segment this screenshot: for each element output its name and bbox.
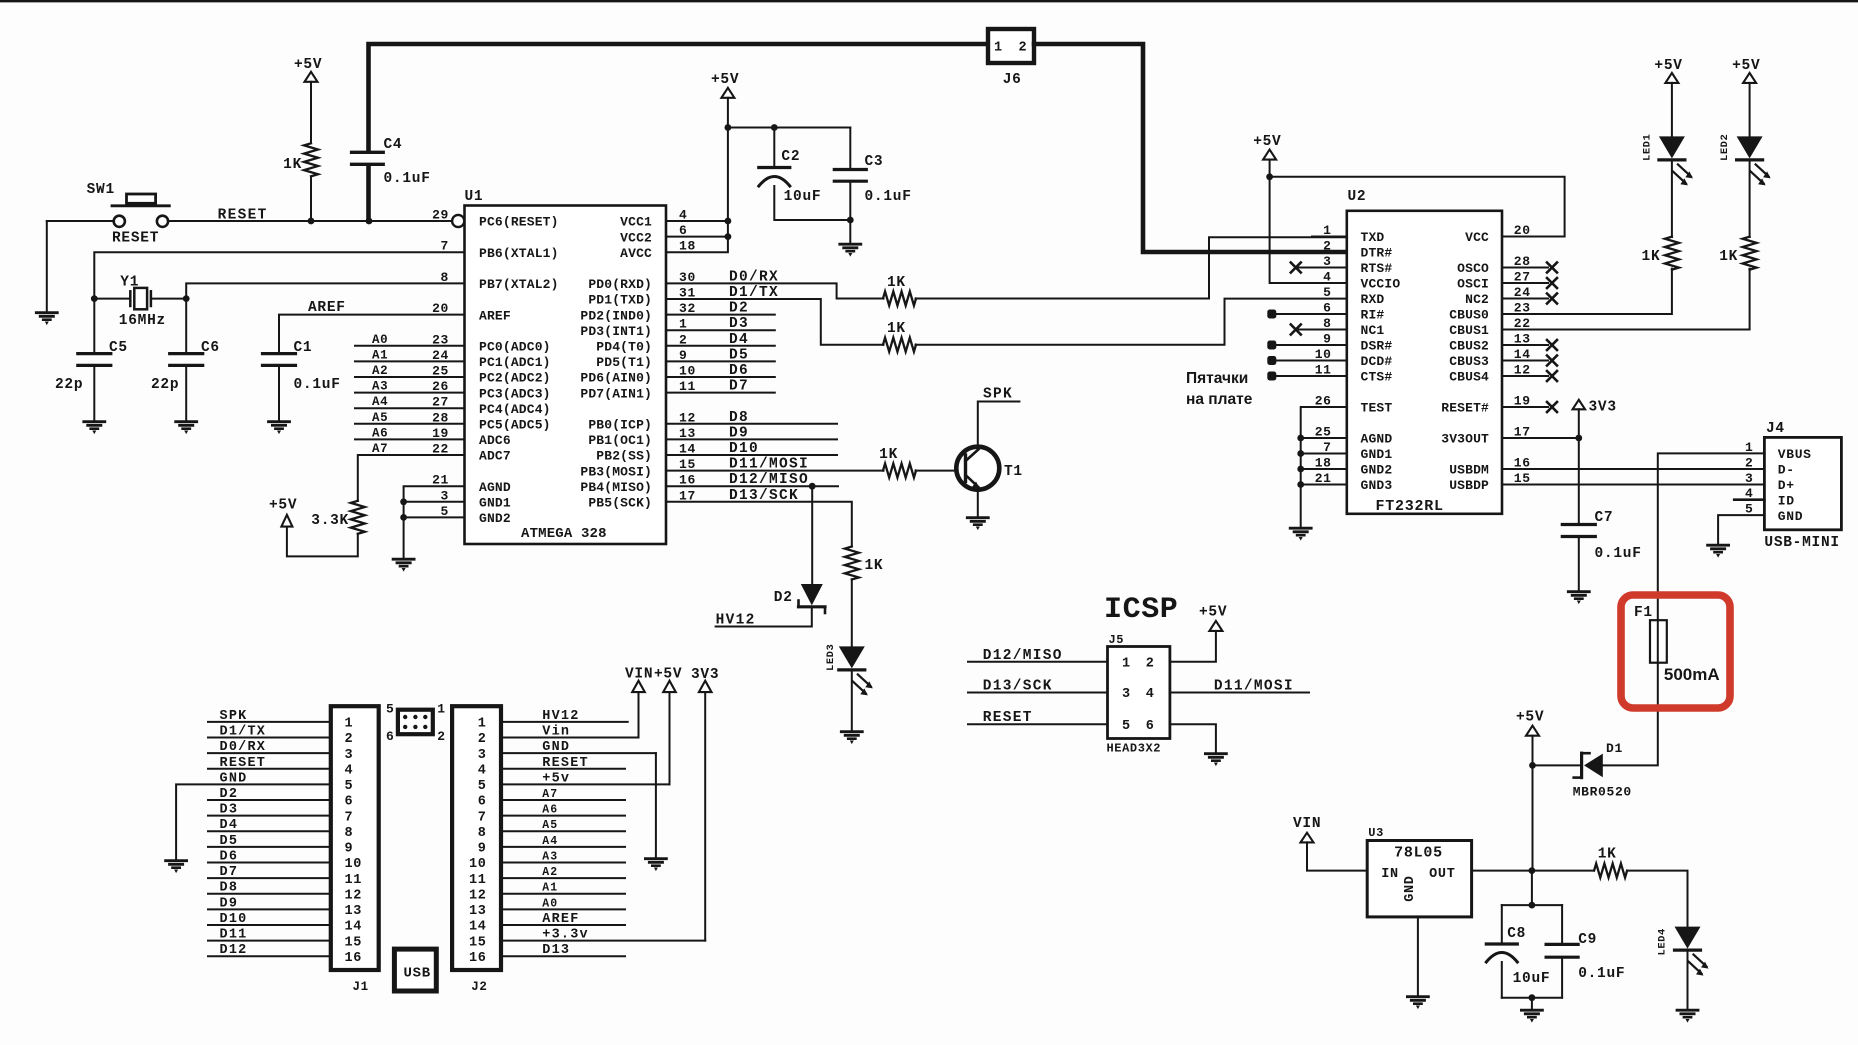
svg-text:3V3OUT: 3V3OUT (1441, 432, 1489, 447)
U1 right pin numbers (679, 208, 696, 504)
text ICSP title (1104, 593, 1178, 627)
diode D2 schottky (774, 584, 825, 613)
svg-text:3: 3 (1745, 471, 1753, 486)
wire +5V to VCCIO (1266, 160, 1347, 283)
wire T1 emitter to ground (977, 490, 979, 517)
wire J2 Vin to VIN arrow (638, 692, 640, 737)
svg-text:U3: U3 (1368, 826, 1384, 840)
svg-text:PB7(XTAL2): PB7(XTAL2) (479, 277, 559, 292)
svg-text:14: 14 (469, 920, 487, 935)
svg-text:2: 2 (1019, 41, 1028, 56)
svg-text:22p: 22p (55, 377, 83, 393)
svg-text:3: 3 (478, 748, 487, 763)
svg-text:AREF: AREF (308, 300, 346, 316)
svg-text:D11/MOSI: D11/MOSI (1214, 679, 1294, 695)
svg-text:1: 1 (478, 717, 487, 732)
capacitor C9 0.1uF (1546, 932, 1625, 998)
svg-text:CTS#: CTS# (1361, 370, 1393, 385)
svg-text:AREF: AREF (479, 308, 511, 323)
resistor 1K (LED2) (1719, 237, 1756, 270)
net label SPK (983, 387, 1013, 403)
ic U1 ATMEGA 328 (465, 189, 667, 544)
header 3x2 between J1 J2 (386, 702, 446, 745)
svg-text:ADC6: ADC6 (479, 433, 511, 448)
resistor R2 3.3K and wire A7 net (287, 455, 465, 556)
svg-text:D10: D10 (220, 912, 248, 927)
pin 29 bubble of U1 (452, 215, 464, 227)
svg-text:A6: A6 (372, 426, 388, 440)
svg-text:A4: A4 (542, 835, 558, 848)
svg-text:PC6(RESET): PC6(RESET) (479, 215, 559, 230)
led LED2 (1719, 83, 1771, 237)
svg-text:GND: GND (1403, 875, 1418, 901)
svg-text:AVCC: AVCC (620, 246, 652, 261)
svg-text:ICSP: ICSP (1104, 593, 1178, 627)
connector J5 HEAD3X2 (1107, 633, 1170, 756)
svg-text:GND1: GND1 (1361, 447, 1393, 462)
svg-text:D8: D8 (220, 881, 239, 896)
svg-text:8: 8 (478, 826, 487, 841)
wires A0-A5 nets (355, 346, 465, 424)
svg-text:DTR#: DTR# (1361, 246, 1393, 261)
svg-text:D0/RX: D0/RX (729, 270, 779, 286)
svg-text:D6: D6 (729, 363, 749, 379)
svg-text:D13/SCK: D13/SCK (983, 679, 1053, 695)
svg-text:D12/MISO: D12/MISO (983, 648, 1063, 664)
svg-text:D11: D11 (220, 928, 248, 943)
svg-text:PB3(MOSI): PB3(MOSI) (580, 464, 652, 479)
svg-text:21: 21 (432, 473, 449, 488)
svg-text:C5: C5 (109, 340, 128, 356)
ground at LED3 (841, 732, 862, 744)
U2 left pin numbers (1315, 223, 1332, 486)
svg-text:5: 5 (345, 779, 354, 794)
svg-text:PC5(ADC5): PC5(ADC5) (479, 418, 551, 433)
power 3V3 arrow at J2 (691, 667, 719, 692)
svg-text:D9: D9 (220, 896, 239, 911)
svg-text:VBUS: VBUS (1778, 447, 1812, 462)
svg-text:2: 2 (1146, 657, 1155, 672)
resistor R7 1K (LED4) (1594, 847, 1627, 878)
svg-text:+5V: +5V (1253, 134, 1281, 150)
svg-text:NC1: NC1 (1361, 323, 1385, 338)
capacitor C4 (352, 137, 431, 221)
svg-text:HV12: HV12 (542, 709, 579, 724)
svg-text:10uF: 10uF (784, 189, 822, 205)
svg-text:C4: C4 (384, 137, 403, 153)
svg-text:AGND: AGND (1361, 432, 1393, 447)
svg-text:C7: C7 (1595, 510, 1614, 526)
svg-text:2: 2 (478, 732, 487, 747)
svg-text:LED2: LED2 (1719, 134, 1731, 161)
svg-text:C9: C9 (1578, 932, 1597, 948)
svg-text:D1: D1 (1606, 741, 1623, 756)
wire TEST and U2 grounds net (1297, 407, 1347, 527)
power +5V above LED1 (1654, 58, 1682, 83)
svg-text:A0: A0 (542, 897, 558, 910)
svg-text:A7: A7 (542, 788, 558, 801)
svg-text:FT232RL: FT232RL (1376, 498, 1444, 515)
svg-text:PB4(MISO): PB4(MISO) (580, 480, 652, 495)
svg-text:VCCIO: VCCIO (1361, 277, 1401, 292)
svg-text:D1/TX: D1/TX (220, 725, 267, 740)
svg-text:9: 9 (345, 842, 354, 857)
svg-text:+5V: +5V (294, 57, 322, 73)
svg-text:D4: D4 (220, 818, 239, 833)
svg-text:D6: D6 (220, 849, 239, 864)
svg-text:J1: J1 (353, 980, 369, 994)
svg-text:PD7(AIN1): PD7(AIN1) (580, 386, 652, 401)
wires D2-D7 nets (666, 315, 775, 393)
svg-text:RESET: RESET (218, 208, 268, 224)
wire D1/TX net (666, 299, 1347, 345)
power +5V at D1 (1516, 710, 1544, 736)
net label RESET at J5 (983, 710, 1033, 726)
svg-text:D-: D- (1778, 463, 1795, 478)
svg-text:GND1: GND1 (479, 496, 511, 511)
svg-text:5: 5 (1122, 719, 1131, 734)
svg-text:25: 25 (432, 364, 449, 379)
svg-text:A5: A5 (542, 819, 558, 832)
svg-text:13: 13 (469, 904, 487, 919)
net labels D2-D7 (729, 301, 749, 395)
svg-text:D3: D3 (220, 803, 239, 818)
svg-text:A2: A2 (542, 866, 558, 879)
svg-text:PC3(ADC3): PC3(ADC3) (479, 386, 551, 401)
power VIN arrow at U3 (1293, 816, 1321, 842)
U1 left pin numbers (432, 208, 449, 519)
svg-text:RI#: RI# (1361, 308, 1385, 323)
svg-text:LED1: LED1 (1641, 134, 1653, 161)
wire LED3 to ground (851, 671, 853, 730)
ground at T1 (967, 518, 988, 530)
wire J5 pin4 D11/MOSI (1170, 692, 1309, 694)
svg-text:14: 14 (345, 920, 363, 935)
svg-text:Y1: Y1 (120, 275, 139, 291)
svg-text:PD1(TXD): PD1(TXD) (588, 293, 652, 308)
ic U2 FT232RL (1347, 189, 1502, 515)
top border line (0, 0, 1858, 2)
svg-text:PD0(RXD): PD0(RXD) (588, 277, 652, 292)
svg-text:16: 16 (469, 951, 487, 966)
wire DCD# pad stub (1267, 356, 1347, 365)
svg-text:PD2(IND0): PD2(IND0) (580, 308, 652, 323)
crystal Y1 16MHz (91, 275, 190, 330)
svg-text:1K: 1K (887, 275, 906, 291)
svg-text:+5V: +5V (1732, 58, 1760, 74)
net label HV12 (716, 613, 756, 629)
wire HV12 net from D2 (716, 608, 812, 626)
ground at U1 AGND (393, 559, 414, 571)
svg-text:4: 4 (1146, 687, 1155, 702)
svg-text:VCC: VCC (1465, 230, 1489, 245)
wire VCC net loop to pin 20 (1270, 177, 1565, 237)
svg-text:+3.3v: +3.3v (542, 928, 589, 943)
svg-text:24: 24 (432, 348, 449, 363)
svg-text:OSCO: OSCO (1457, 261, 1489, 276)
svg-text:TEST: TEST (1361, 401, 1393, 416)
svg-text:4: 4 (345, 763, 354, 778)
svg-text:SPK: SPK (983, 387, 1013, 403)
svg-text:GND: GND (1778, 509, 1803, 524)
svg-text:USBDM: USBDM (1449, 463, 1489, 478)
svg-text:1: 1 (345, 717, 354, 732)
svg-text:RXD: RXD (1361, 292, 1385, 307)
svg-text:ATMEGA 328: ATMEGA 328 (521, 526, 607, 542)
svg-text:29: 29 (432, 208, 449, 223)
svg-text:+5V: +5V (1654, 58, 1682, 74)
power +5V above C2 (711, 72, 739, 98)
connector J2 (452, 706, 501, 994)
net labels D8 D9 D10 (729, 410, 759, 457)
svg-text:PB6(XTAL1): PB6(XTAL1) (479, 246, 559, 261)
ground at J5 (1205, 754, 1226, 766)
wire D0/RX net (666, 237, 1347, 298)
svg-text:0.1uF: 0.1uF (294, 377, 341, 393)
capacitor C2 10uF (759, 124, 851, 220)
svg-text:CBUS0: CBUS0 (1449, 308, 1489, 323)
svg-text:1K: 1K (1642, 249, 1661, 265)
wire 3V3OUT net (1502, 409, 1582, 523)
svg-text:A3: A3 (372, 380, 388, 394)
svg-text:5: 5 (1323, 285, 1331, 300)
svg-text:0.1uF: 0.1uF (865, 189, 912, 205)
wire ID stub (1734, 498, 1764, 501)
svg-text:12: 12 (469, 888, 487, 903)
power +5V at 3.3K (269, 498, 297, 527)
svg-text:DCD#: DCD# (1361, 354, 1393, 369)
svg-text:D13: D13 (542, 943, 570, 958)
svg-text:TXD: TXD (1361, 230, 1385, 245)
wire J1 GND net to ground (176, 784, 331, 859)
svg-text:78L05: 78L05 (1394, 845, 1443, 862)
svg-text:RESET: RESET (112, 231, 159, 247)
power +5V arrow at J2 (654, 667, 682, 693)
svg-text:+5V: +5V (1199, 605, 1227, 621)
net label D1/TX (729, 285, 779, 301)
wires J1 left nets (208, 722, 331, 956)
svg-text:19: 19 (432, 426, 449, 441)
svg-text:VCC2: VCC2 (620, 230, 652, 245)
net label D13/SCK (729, 488, 799, 504)
svg-text:RTS#: RTS# (1361, 261, 1393, 276)
svg-text:D1/TX: D1/TX (729, 285, 779, 301)
wire USBDP net (1502, 484, 1764, 486)
svg-text:A6: A6 (542, 804, 558, 817)
capacitor C3 0.1uF (834, 128, 911, 244)
svg-text:T1: T1 (1004, 464, 1023, 480)
svg-text:D3: D3 (729, 316, 749, 332)
connector J4 USB-MINI (1745, 421, 1841, 551)
svg-text:VCC1: VCC1 (620, 215, 652, 230)
wires J2 right nets (501, 722, 705, 956)
wire TXD stub (1312, 236, 1347, 238)
svg-text:U1: U1 (465, 189, 484, 205)
svg-text:12: 12 (345, 888, 363, 903)
wires CBUS2 CBUS3 CBUS4 stubs with X (1502, 340, 1557, 381)
svg-text:26: 26 (432, 379, 449, 394)
svg-text:PD4(T0): PD4(T0) (596, 340, 652, 355)
power +5V above LED2 (1732, 58, 1760, 83)
svg-text:C6: C6 (201, 340, 220, 356)
wire D11/MOSI net to T1 (666, 470, 964, 472)
resistor R3 1K (D0/RX) (883, 275, 916, 306)
svg-text:RESET: RESET (542, 756, 589, 771)
svg-text:7: 7 (478, 810, 487, 825)
svg-text:на плате: на плате (1186, 391, 1253, 408)
highlight red box around F1 (1621, 595, 1730, 708)
resistor R1 1K (reset pullup) (283, 82, 318, 221)
connector USB block (394, 949, 436, 991)
svg-text:PB0(ICP): PB0(ICP) (588, 418, 652, 433)
svg-text:D2: D2 (729, 301, 749, 317)
U2 right pin numbers (1514, 223, 1531, 486)
svg-text:10: 10 (469, 857, 487, 872)
svg-text:2: 2 (437, 729, 445, 744)
net labels A0-A7 (372, 333, 388, 456)
svg-text:CBUS2: CBUS2 (1449, 339, 1489, 354)
power +5V at J5 (1199, 605, 1227, 631)
svg-text:+5v: +5v (542, 771, 570, 786)
ground at C7 (1568, 592, 1589, 604)
net labels J2 right (542, 709, 589, 958)
svg-text:D5: D5 (729, 347, 749, 363)
ground arrow at J1 GND (166, 861, 187, 873)
svg-text:A5: A5 (372, 411, 388, 425)
wire D12/MISO to J5 (968, 661, 1108, 663)
led LED1 (1641, 83, 1693, 237)
svg-text:J2: J2 (471, 980, 487, 994)
svg-text:22p: 22p (151, 377, 179, 393)
svg-text:GND2: GND2 (479, 511, 511, 526)
ground at U3 (1407, 997, 1428, 1009)
switch SW1 (87, 182, 170, 247)
wire D12/MISO net (666, 483, 838, 583)
svg-text:2: 2 (345, 732, 354, 747)
svg-text:C2: C2 (781, 149, 800, 165)
svg-text:9: 9 (478, 842, 487, 857)
svg-text:2: 2 (1323, 239, 1331, 254)
svg-text:DSR#: DSR# (1361, 339, 1393, 354)
svg-text:D13/SCK: D13/SCK (729, 488, 799, 504)
svg-text:3.3K: 3.3K (311, 513, 349, 529)
svg-text:PC4(ADC4): PC4(ADC4) (479, 402, 551, 417)
svg-text:A7: A7 (372, 442, 388, 456)
svg-text:PD3(INT1): PD3(INT1) (580, 324, 652, 339)
ground at C5 (84, 422, 105, 434)
wire J2 GND net to ground (655, 753, 657, 857)
wire RESET net (47, 218, 452, 225)
svg-text:7: 7 (441, 239, 449, 254)
net label D12/MISO (729, 472, 809, 488)
resistor R4 1K (D1/TX) (883, 321, 916, 352)
diode D1 MBR0520 (1573, 741, 1632, 800)
wire SW1 to ground (46, 221, 48, 312)
svg-text:HEAD3X2: HEAD3X2 (1107, 742, 1162, 756)
svg-text:6: 6 (1146, 719, 1155, 734)
power +5V above R1 (294, 57, 322, 82)
svg-text:D9: D9 (729, 425, 749, 441)
led LED3 (825, 579, 873, 695)
svg-text:F1: F1 (1634, 605, 1653, 621)
svg-text:13: 13 (345, 904, 363, 919)
svg-text:HV12: HV12 (716, 613, 756, 629)
svg-text:10: 10 (345, 857, 363, 872)
svg-text:C8: C8 (1507, 926, 1526, 942)
svg-text:Пятачки: Пятачки (1186, 370, 1248, 387)
ground at C6 (176, 422, 197, 434)
wire U3 OUT +5V net (1472, 867, 1594, 874)
ground arrow at J2 GND (645, 859, 666, 871)
wire NC1 stub with X (1291, 325, 1347, 335)
svg-text:D2: D2 (220, 787, 239, 802)
svg-text:U2: U2 (1348, 189, 1367, 205)
wire VBUS net with F1 (1603, 453, 1765, 765)
wire U3 GND to ground (1417, 917, 1419, 996)
svg-text:500mA: 500mA (1664, 665, 1720, 684)
svg-text:RESET#: RESET# (1441, 401, 1489, 416)
net label D0/RX (729, 270, 779, 286)
wire RTS# stub with X (1291, 263, 1347, 273)
net label D11/MOSI (729, 457, 809, 473)
wire VIN to U3 IN (1307, 842, 1367, 870)
svg-text:SPK: SPK (220, 709, 248, 724)
wire A6 net (355, 438, 465, 440)
svg-text:PD6(AIN0): PD6(AIN0) (580, 371, 652, 386)
connector J1 (331, 706, 379, 994)
svg-text:D12/MISO: D12/MISO (729, 472, 809, 488)
wire CBUS1 net to LED2 (1502, 269, 1750, 330)
svg-text:A3: A3 (542, 850, 558, 863)
svg-text:C1: C1 (294, 340, 313, 356)
capacitor C5 22p (55, 299, 128, 421)
svg-text:VIN: VIN (1293, 816, 1321, 832)
svg-text:1K: 1K (283, 157, 302, 173)
svg-text:28: 28 (432, 410, 449, 425)
svg-text:D12: D12 (220, 943, 248, 958)
svg-text:+5V: +5V (711, 72, 739, 88)
ground at SW1 (36, 313, 57, 325)
svg-text:+5V: +5V (654, 667, 682, 683)
svg-text:USB-MINI: USB-MINI (1764, 535, 1839, 551)
svg-text:5: 5 (386, 702, 394, 717)
led LED4 (1657, 927, 1709, 1009)
wire DSR# pad stub (1267, 341, 1347, 350)
svg-text:1K: 1K (1598, 847, 1617, 863)
svg-text:3: 3 (441, 488, 449, 503)
wire +5V D1 junction net (1529, 736, 1580, 871)
wire D13/SCK net (666, 502, 852, 547)
svg-text:2: 2 (1745, 455, 1753, 470)
wire RESET to J5 (968, 723, 1108, 725)
svg-text:A1: A1 (372, 348, 388, 362)
svg-text:D11/MOSI: D11/MOSI (729, 457, 809, 473)
power 3V3 arrow near RESET# (1573, 400, 1617, 416)
svg-text:LED3: LED3 (825, 644, 837, 671)
svg-text:27: 27 (432, 395, 449, 410)
svg-text:D5: D5 (220, 834, 239, 849)
wire USBDM net (1502, 468, 1764, 470)
svg-text:C3: C3 (865, 154, 884, 170)
svg-text:5: 5 (478, 779, 487, 794)
resistor 1K (LED1) (1642, 237, 1679, 270)
net labels J1 left (220, 709, 267, 958)
svg-text:CBUS4: CBUS4 (1449, 370, 1489, 385)
svg-text:D8: D8 (729, 410, 749, 426)
svg-text:IN: IN (1381, 867, 1399, 882)
svg-text:ADC7: ADC7 (479, 449, 511, 464)
svg-text:1: 1 (437, 702, 445, 717)
